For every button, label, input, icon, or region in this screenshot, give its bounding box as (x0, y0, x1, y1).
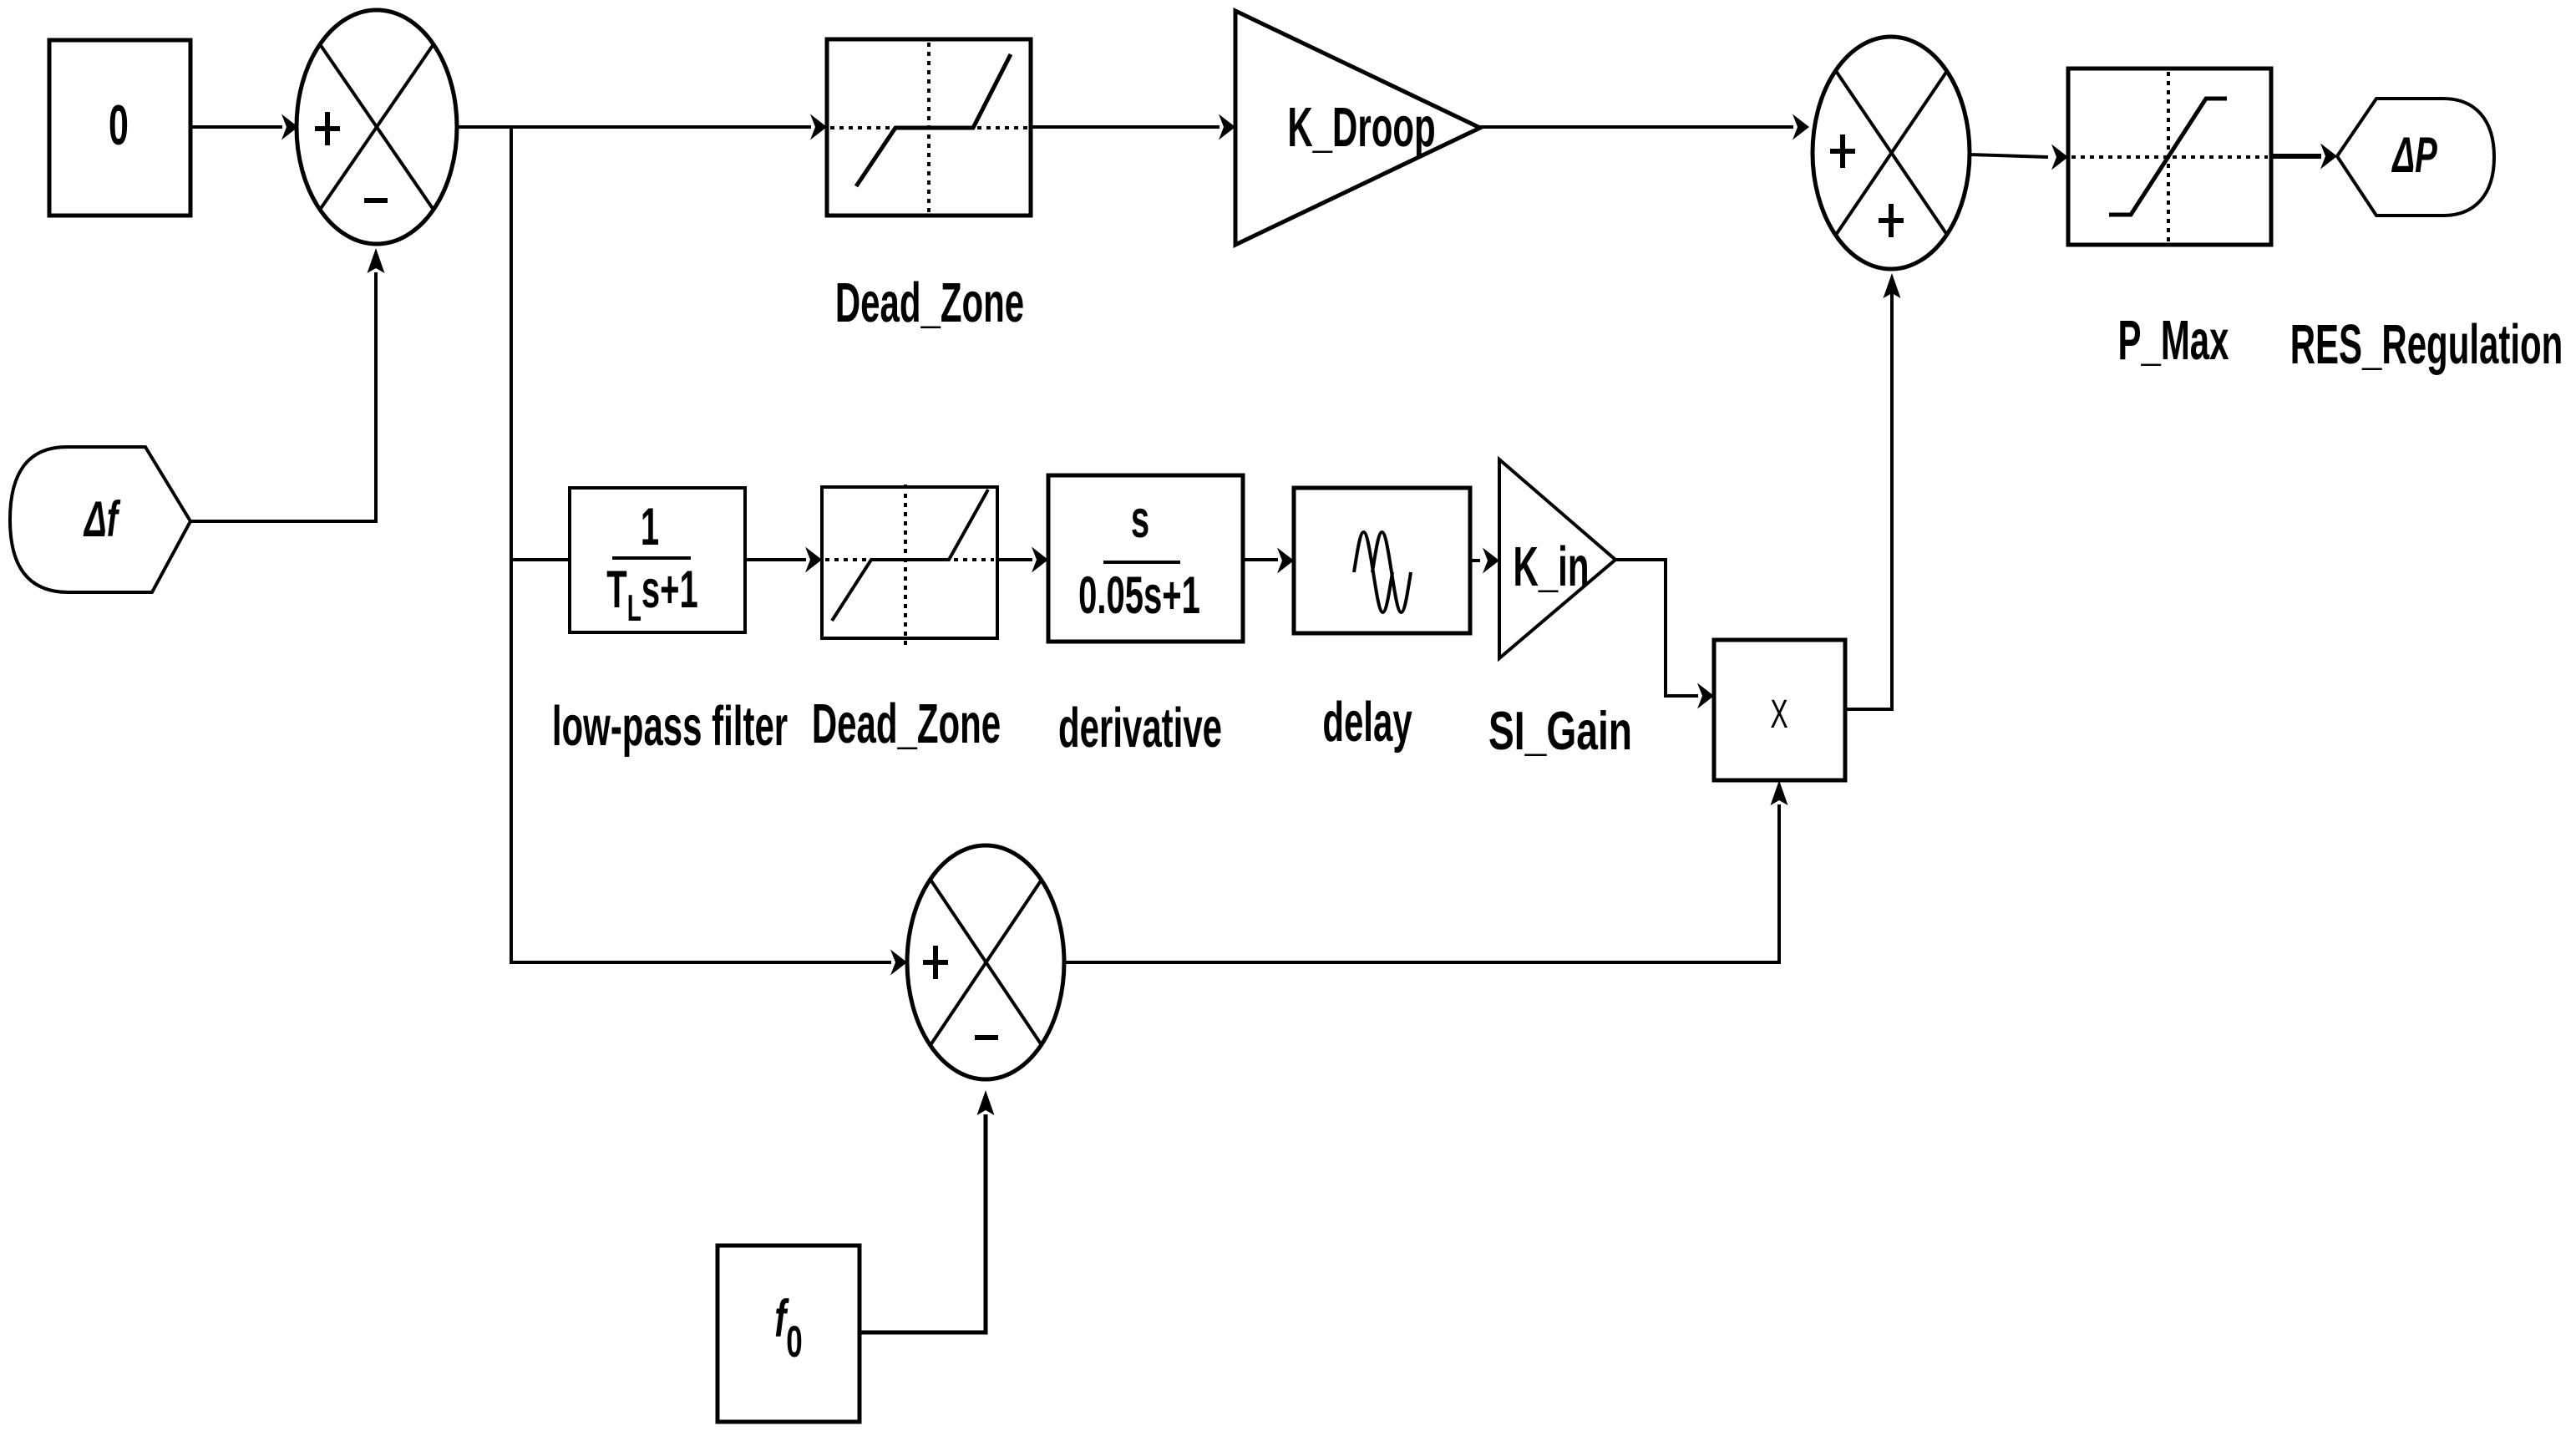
transfer fcn block low-pass filter (570, 488, 745, 632)
output port ΔP (2337, 99, 2494, 216)
wire branch down from node (511, 127, 907, 976)
svg-text:0.05s+1: 0.05s+1 (1078, 566, 1200, 626)
svg-text:derivative: derivative (1058, 697, 1222, 759)
delay block (1294, 488, 1470, 633)
label Dead_Zone (top) (835, 271, 1024, 333)
gain block K_Droop (1235, 11, 1480, 245)
label SI_Gain (1488, 700, 1632, 761)
summing junction sum1 (297, 10, 457, 244)
gain block K_in (1499, 459, 1615, 658)
svg-text:P_Max: P_Max (2117, 309, 2229, 371)
wire 0 to sum1 (190, 114, 298, 140)
wire filter to Dead_Zone2 (745, 547, 822, 573)
svg-text:low-pass filter: low-pass filter (552, 695, 788, 757)
wire delay to K_in (1470, 548, 1499, 574)
svg-text:Dead_Zone: Dead_Zone (812, 693, 1001, 754)
label low-pass filter (552, 695, 788, 757)
wire K_in to product (1615, 560, 1714, 709)
label RES_Regulation (2290, 313, 2563, 375)
dead zone block Dead_Zone (top) (827, 39, 1031, 216)
wire sum3 to product bottom (1064, 780, 1788, 962)
wire sum2 to P_Max (1970, 145, 2068, 170)
svg-text:1: 1 (641, 498, 659, 557)
svg-text:K_in: K_in (1514, 535, 1590, 597)
svg-text:X: X (1770, 691, 1787, 736)
input port Δf (10, 447, 190, 592)
product block X (1714, 640, 1845, 780)
svg-text:s: s (1131, 490, 1149, 550)
dead zone block Dead_Zone (middle) (822, 485, 997, 645)
svg-text:Dead_Zone: Dead_Zone (835, 271, 1024, 333)
wire f0 to sum3 (860, 1090, 995, 1332)
saturation block P_Max (2068, 69, 2271, 245)
wire Δf to sum1 (190, 248, 385, 521)
summing junction sum2 (1813, 37, 1970, 269)
wire sum1 to Dead_Zone (457, 114, 827, 140)
label Dead_Zone (middle) (812, 693, 1001, 754)
svg-text:0: 0 (109, 94, 129, 157)
svg-text:Δf: Δf (83, 491, 121, 547)
constant block 0 (49, 40, 190, 216)
svg-text:RES_Regulation: RES_Regulation (2290, 313, 2563, 375)
svg-text:SI_Gain: SI_Gain (1488, 700, 1632, 761)
wire Dead_Zone2 to derivative (997, 547, 1048, 573)
constant block f0 (718, 1246, 860, 1422)
label delay (1322, 691, 1412, 753)
wire Dead_Zone to K_Droop (1031, 114, 1235, 140)
svg-text:TLs+1: TLs+1 (606, 561, 697, 629)
transfer fcn block derivative (1048, 475, 1243, 642)
summing junction sum3 (907, 845, 1064, 1079)
svg-text:delay: delay (1322, 691, 1412, 753)
wire K_Droop to sum2 (1480, 114, 1809, 140)
wire derivative to delay (1243, 548, 1294, 574)
svg-text:ΔP: ΔP (2391, 127, 2438, 183)
svg-text:K_Droop: K_Droop (1287, 96, 1435, 158)
label derivative (1058, 697, 1222, 759)
label P_Max (2117, 309, 2229, 371)
wire product to sum2 (1845, 273, 1901, 709)
wire branch to low-pass filter (511, 558, 570, 561)
wire P_Max to ΔP (2271, 144, 2337, 170)
